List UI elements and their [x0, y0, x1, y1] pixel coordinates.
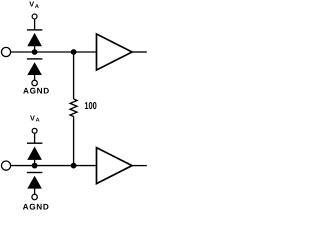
op-amp U1 buffer (top) [97, 34, 133, 70]
svg-text:A: A [35, 4, 39, 10]
wire resistor top lead [73, 52, 75, 99]
wire D3 anode to input rail [34, 160, 36, 166]
node VA (top) label [29, 0, 39, 10]
svg-text:100: 100 [84, 101, 97, 112]
junction diode tap (top) [32, 49, 38, 55]
wire VA terminal to D1 cathode [34, 19, 36, 30]
svg-text:AGND: AGND [23, 87, 50, 96]
junction diode tap (bottom) [32, 163, 38, 169]
wire input rail (top) [11, 51, 97, 53]
diode D3 (clamp to VA, cathode up) [27, 143, 43, 160]
svg-text:AGND: AGND [23, 203, 50, 212]
wire resistor bottom lead [73, 117, 75, 166]
terminal AGND (bottom) open circle [32, 194, 37, 199]
wire VA terminal to D3 cathode [34, 133, 36, 143]
diode D4 (clamp to AGND, cathode up) [27, 173, 43, 189]
wire U2 output [132, 165, 147, 167]
op-amp U2 buffer (bottom) [97, 148, 133, 184]
junction resistor tap (bottom) [71, 163, 77, 169]
wire D1 anode to input rail [34, 46, 36, 52]
terminal VA (bottom) open circle [32, 128, 37, 133]
junction resistor tap (top) [71, 49, 77, 55]
wire input rail (bottom) [11, 165, 97, 167]
wire U1 output [132, 51, 147, 53]
terminal input (top) open circle [1, 47, 10, 56]
diode D2 (clamp to AGND, cathode up) [27, 59, 43, 75]
terminal AGND (top) open circle [32, 80, 37, 85]
diode D1 (clamp to VA, cathode up) [27, 30, 43, 46]
node VA (bottom) label [30, 113, 40, 123]
resistor R1 100 zigzag [70, 99, 77, 117]
terminal input (bottom) open circle [1, 161, 10, 170]
terminal VA (top) open circle [32, 14, 37, 19]
svg-text:A: A [36, 118, 40, 124]
svg-text:V: V [29, 0, 34, 9]
wire D2 anode to AGND terminal [34, 75, 36, 80]
wire D4 anode to AGND terminal [34, 188, 36, 194]
svg-text:V: V [30, 113, 35, 122]
